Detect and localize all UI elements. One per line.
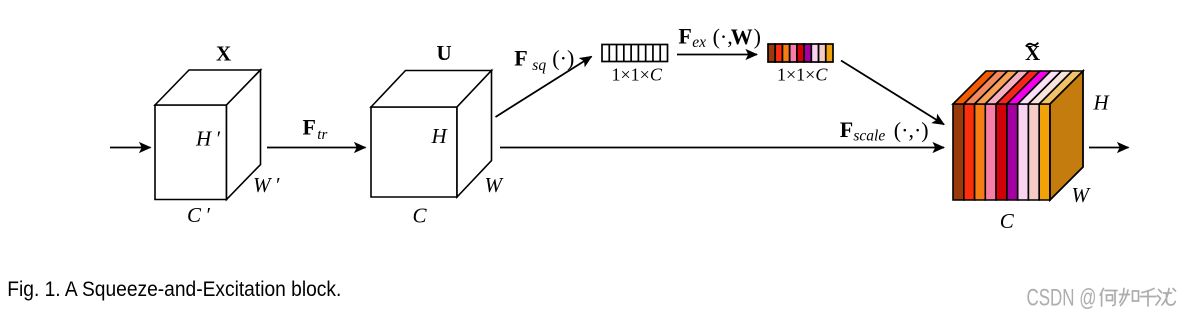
- svg-text:Fig. 1. A Squeeze-and-Excitati: Fig. 1. A Squeeze-and-Excitation block.: [7, 278, 341, 301]
- colored cube X-tilde top face stripes: [953, 71, 1083, 104]
- tensor cube U: [371, 71, 492, 198]
- svg-text:C ′: C ′: [187, 203, 210, 227]
- svg-text:1×1×C: 1×1×C: [777, 65, 828, 85]
- svg-text:sq: sq: [532, 57, 546, 74]
- svg-text:ex: ex: [692, 34, 706, 51]
- svg-text:): ): [754, 24, 761, 49]
- input arrow: [110, 147, 151, 149]
- hanzi ru: [1120, 289, 1139, 306]
- svg-text:(·,·): (·,·): [894, 117, 929, 142]
- excitation vector bar 1x1xC colored: [768, 44, 833, 62]
- arrow F_scale: [500, 147, 944, 149]
- svg-text:tr: tr: [317, 127, 327, 143]
- svg-text:F: F: [678, 24, 691, 49]
- svg-text:C: C: [413, 204, 428, 228]
- svg-text:scale: scale: [853, 128, 885, 145]
- svg-text:(·): (·): [552, 46, 574, 71]
- arrow F_ex: [677, 54, 757, 56]
- svg-text:H ′: H ′: [195, 127, 220, 151]
- arrow excitation to scale: [841, 61, 944, 125]
- svg-text:W: W: [485, 173, 505, 197]
- squeeze vector bar 1x1xC: [602, 45, 668, 62]
- svg-text:X: X: [216, 42, 231, 66]
- svg-text:W: W: [1072, 183, 1092, 207]
- svg-text:1×1×C: 1×1×C: [612, 65, 663, 85]
- colored cube X-tilde front face stripes: [953, 104, 1050, 200]
- tensor cube X: [155, 70, 261, 200]
- arrow F_tr: [267, 147, 366, 149]
- svg-text:U: U: [437, 41, 452, 65]
- hanzi he: [1100, 289, 1117, 307]
- svg-text:F: F: [514, 45, 527, 70]
- colored cube X-tilde right side face: [1050, 71, 1083, 200]
- arrow F_sq diagonal: [496, 57, 592, 118]
- hanzi long: [1156, 289, 1176, 306]
- svg-text:C: C: [1000, 209, 1015, 233]
- svg-text:F: F: [840, 117, 853, 142]
- svg-text:H: H: [1093, 91, 1111, 115]
- watermark CJK glyphs drawn as strokes: [1100, 289, 1175, 307]
- svg-text:W: W: [731, 24, 753, 49]
- svg-text:CSDN @: CSDN @: [1027, 285, 1097, 312]
- svg-text:F: F: [303, 115, 316, 140]
- output arrow: [1089, 147, 1129, 149]
- svg-text:H: H: [431, 124, 449, 148]
- hanzi qian: [1141, 289, 1157, 307]
- svg-text:W ′: W ′: [253, 173, 280, 197]
